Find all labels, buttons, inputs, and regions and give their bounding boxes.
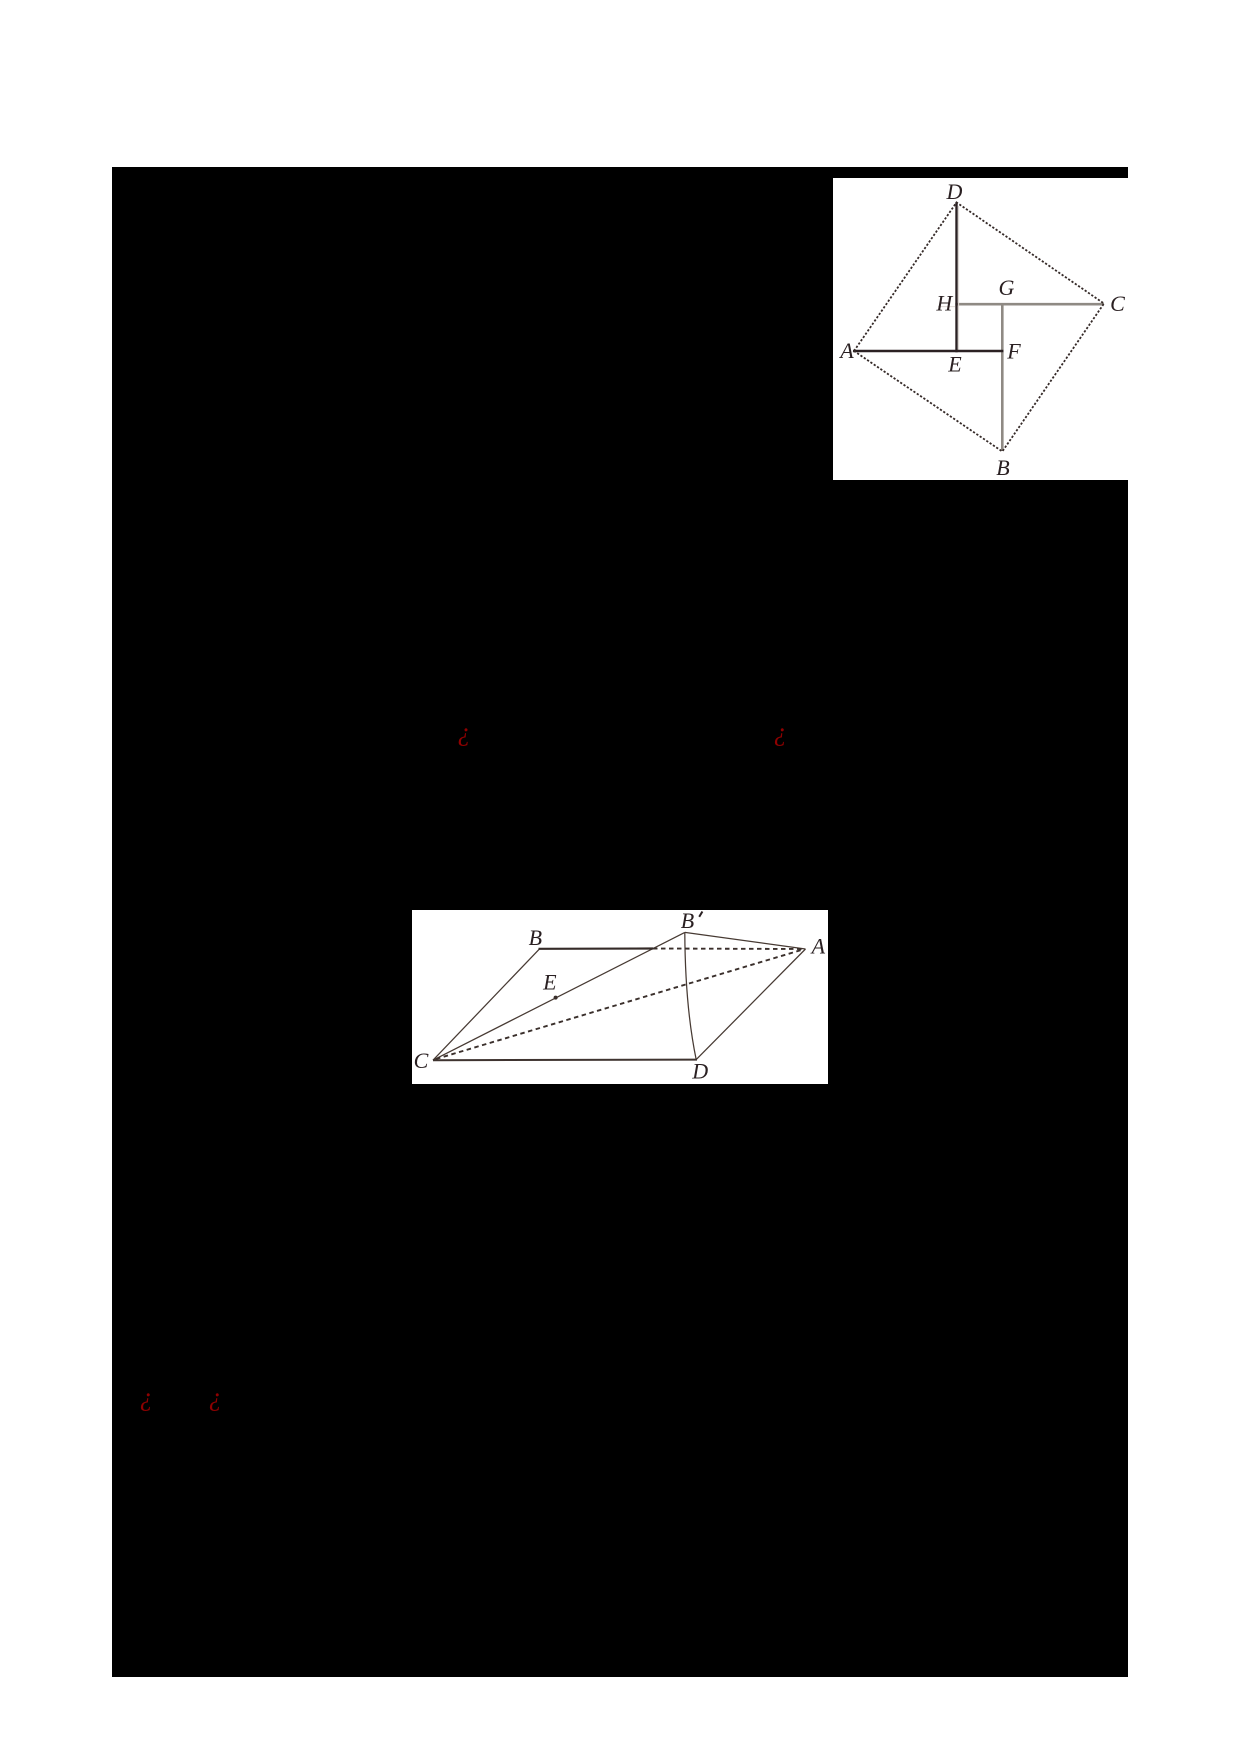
svg-text:D: D — [946, 179, 963, 204]
svg-text:¿: ¿ — [774, 718, 787, 747]
svg-text:B: B — [529, 925, 542, 950]
svg-text:¿: ¿ — [458, 718, 471, 747]
svg-text:H: H — [935, 290, 953, 315]
svg-text:B: B — [996, 455, 1009, 480]
svg-text:¿: ¿ — [140, 1383, 153, 1412]
svg-text:A: A — [810, 934, 826, 959]
svg-text:B: B — [681, 908, 694, 933]
svg-text:D: D — [691, 1059, 708, 1084]
svg-text:¿: ¿ — [209, 1383, 222, 1412]
svg-text:A: A — [838, 338, 854, 363]
svg-text:C: C — [414, 1048, 429, 1073]
svg-text:C: C — [1110, 291, 1125, 316]
svg-text:E: E — [542, 970, 557, 995]
svg-text:E: E — [947, 351, 962, 376]
svg-text:G: G — [999, 275, 1015, 300]
svg-text:F: F — [1006, 338, 1021, 363]
